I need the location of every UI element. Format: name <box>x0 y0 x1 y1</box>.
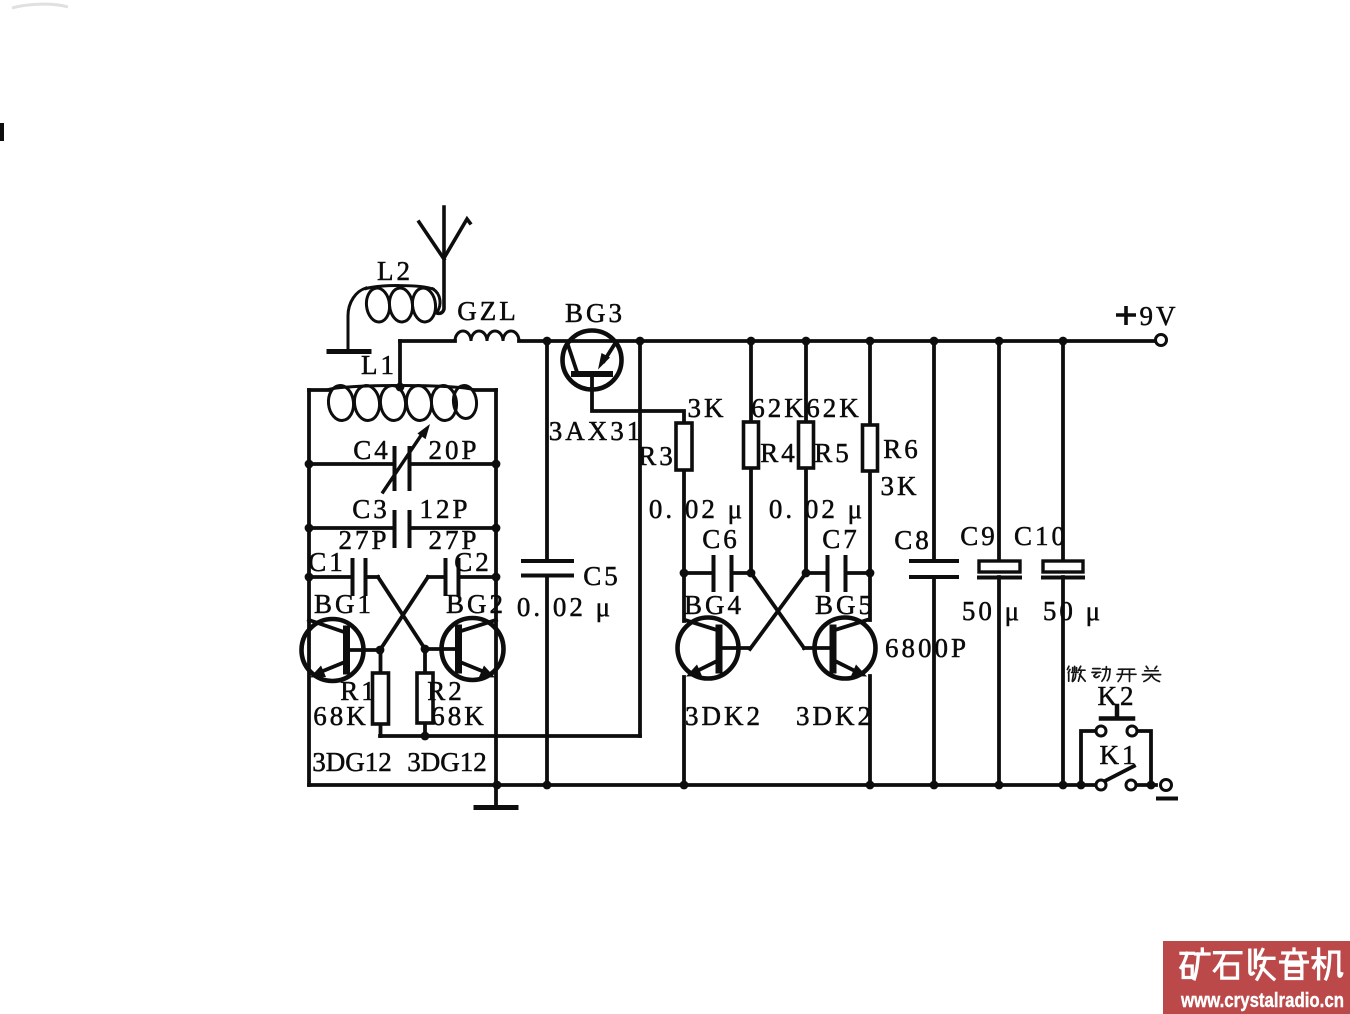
svg-text:K1: K1 <box>1100 740 1139 770</box>
svg-text:50 μ: 50 μ <box>1043 596 1103 626</box>
svg-text:50 μ: 50 μ <box>962 596 1022 626</box>
svg-text:C4: C4 <box>353 435 391 465</box>
svg-text:R6: R6 <box>883 434 921 464</box>
svg-text:3DG12: 3DG12 <box>312 747 392 777</box>
svg-text:L1: L1 <box>361 350 397 380</box>
svg-text:R5: R5 <box>814 438 852 468</box>
svg-text:K2: K2 <box>1098 681 1137 711</box>
svg-text:3K: 3K <box>688 393 727 423</box>
svg-text:68K: 68K <box>313 701 369 731</box>
svg-text:BG5: BG5 <box>815 590 875 620</box>
svg-text:0. 02 μ: 0. 02 μ <box>769 494 865 524</box>
svg-text:C2: C2 <box>454 547 492 577</box>
svg-text:BG1: BG1 <box>314 589 374 619</box>
svg-text:BG2: BG2 <box>446 589 506 619</box>
svg-text:3K: 3K <box>881 471 920 501</box>
svg-text:C9: C9 <box>960 521 998 551</box>
svg-text:C3: C3 <box>352 494 390 524</box>
svg-text:C1: C1 <box>308 547 346 577</box>
svg-text:0. 02 μ: 0. 02 μ <box>517 592 613 622</box>
svg-text:GZL: GZL <box>457 296 518 326</box>
svg-text:68K: 68K <box>431 701 487 731</box>
svg-text:BG4: BG4 <box>684 590 744 620</box>
svg-text:www.crystalradio.cn: www.crystalradio.cn <box>1180 990 1344 1012</box>
svg-text:BG3: BG3 <box>565 298 625 328</box>
svg-text:R3: R3 <box>638 441 676 471</box>
svg-text:C7: C7 <box>822 524 860 554</box>
svg-text:3AX31: 3AX31 <box>549 416 644 446</box>
svg-text:0. 02 μ: 0. 02 μ <box>649 494 745 524</box>
svg-text:12P: 12P <box>419 494 470 524</box>
svg-text:62K: 62K <box>806 393 862 423</box>
svg-text:6800P: 6800P <box>885 633 969 663</box>
svg-text:R4: R4 <box>760 438 798 468</box>
svg-text:62K: 62K <box>751 393 807 423</box>
svg-text:L2: L2 <box>377 256 413 286</box>
svg-text:27P: 27P <box>338 525 389 555</box>
svg-text:20P: 20P <box>428 435 479 465</box>
svg-text:9V: 9V <box>1140 301 1179 331</box>
svg-text:C8: C8 <box>894 525 932 555</box>
svg-text:3DK2: 3DK2 <box>796 701 874 731</box>
svg-text:C10: C10 <box>1014 521 1068 551</box>
svg-text:C6: C6 <box>702 524 740 554</box>
svg-text:C5: C5 <box>583 561 621 591</box>
svg-text:3DG12: 3DG12 <box>407 747 487 777</box>
svg-text:3DK2: 3DK2 <box>685 701 763 731</box>
